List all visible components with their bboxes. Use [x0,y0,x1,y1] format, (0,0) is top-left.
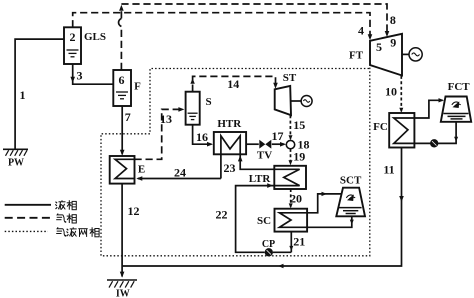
svg-text:5: 5 [376,40,382,54]
svg-text:1: 1 [20,88,26,102]
svg-text:FT: FT [349,50,364,62]
svg-text:GLS: GLS [84,31,106,43]
svg-text:ST: ST [283,72,297,84]
svg-text:17: 17 [272,129,284,143]
svg-text:21: 21 [293,234,305,248]
svg-text:CP: CP [262,239,275,250]
svg-text:FCT: FCT [448,81,471,93]
svg-text:FC: FC [373,121,388,133]
svg-text:4: 4 [358,24,364,38]
svg-text:22: 22 [216,208,228,222]
svg-text:PW: PW [8,158,24,169]
svg-text:HTR: HTR [217,118,242,130]
svg-text:S: S [205,96,211,108]
svg-text:3: 3 [77,69,83,83]
svg-text:6: 6 [119,73,125,87]
svg-text:19: 19 [293,149,305,163]
svg-text:14: 14 [227,77,239,91]
svg-text:9: 9 [390,36,396,50]
svg-text:F: F [134,81,141,93]
svg-text:2: 2 [70,30,76,44]
svg-text:7: 7 [125,110,131,124]
svg-text:15: 15 [293,118,305,132]
svg-text:13: 13 [160,112,172,126]
svg-text:E: E [138,164,145,176]
svg-text:IW: IW [116,289,130,298]
svg-text:SCT: SCT [340,175,362,187]
svg-text:23: 23 [224,161,236,175]
svg-text:8: 8 [390,13,396,27]
svg-text:12: 12 [128,204,140,218]
svg-text:20: 20 [290,192,302,206]
svg-text:16: 16 [196,130,208,144]
svg-text:LTR: LTR [249,173,272,185]
svg-text:24: 24 [174,166,186,180]
svg-text:SC: SC [257,215,271,227]
svg-text:11: 11 [383,163,394,177]
svg-text:10: 10 [385,85,397,99]
svg-text:TV: TV [257,150,272,162]
